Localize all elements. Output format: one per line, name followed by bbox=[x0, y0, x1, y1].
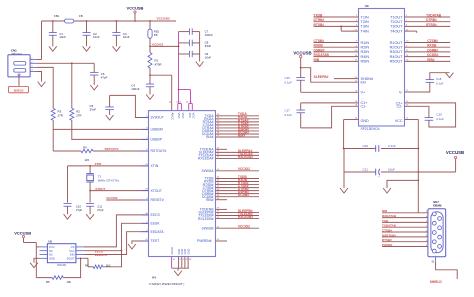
svg-text:RXLEDB#: RXLEDB# bbox=[238, 215, 253, 219]
svg-text:CTSB#: CTSB# bbox=[314, 39, 325, 43]
svg-text:VCC: VCC bbox=[192, 113, 196, 119]
svg-text:R5IN: R5IN bbox=[361, 60, 370, 64]
svg-text:0.1uF: 0.1uF bbox=[285, 81, 293, 85]
svg-text:SHIELD: SHIELD bbox=[14, 88, 24, 92]
svg-text:27R: 27R bbox=[58, 114, 63, 118]
svg-text:6MHz CRYSTAL: 6MHz CRYSTAL bbox=[98, 178, 120, 182]
svg-text:RXDATAB: RXDATAB bbox=[382, 214, 397, 218]
svg-text:SP213EHCA: SP213EHCA bbox=[361, 127, 381, 131]
svg-text:FT2232 ( RS232 PINOUT ): FT2232 ( RS232 PINOUT ) bbox=[150, 282, 185, 286]
svg-text:C20: C20 bbox=[363, 144, 369, 148]
svg-text:DSRB#: DSRB# bbox=[314, 48, 325, 52]
svg-text:SI/WUB: SI/WUB bbox=[201, 226, 214, 230]
svg-text:RESET#: RESET# bbox=[151, 198, 164, 202]
svg-text:DTRB#: DTRB# bbox=[314, 18, 325, 22]
svg-text:10nF: 10nF bbox=[93, 35, 100, 39]
svg-text:XTOUT: XTOUT bbox=[151, 189, 162, 193]
svg-text:T2OUT: T2OUT bbox=[390, 20, 403, 24]
svg-text:RIB: RIB bbox=[314, 58, 320, 62]
svg-text:GND: GND bbox=[186, 249, 190, 255]
svg-text:DTRB#: DTRB# bbox=[426, 18, 437, 22]
svg-text:10nF: 10nF bbox=[205, 55, 212, 59]
svg-text:0.1uF: 0.1uF bbox=[436, 81, 444, 85]
svg-text:RTSB#: RTSB# bbox=[426, 23, 437, 27]
svg-text:R1IN: R1IN bbox=[361, 41, 370, 45]
svg-text:RTSB#: RTSB# bbox=[382, 238, 392, 242]
svg-text:USBDP: USBDP bbox=[151, 138, 163, 142]
svg-text:1k5: 1k5 bbox=[85, 158, 90, 162]
svg-text:EEDATA: EEDATA bbox=[151, 230, 165, 234]
svg-text:T3OUT: T3OUT bbox=[390, 25, 403, 29]
svg-text:R2IN: R2IN bbox=[361, 46, 370, 50]
svg-text:FB: FB bbox=[154, 33, 158, 37]
svg-text:TEST: TEST bbox=[151, 239, 160, 243]
svg-text:RTSB#: RTSB# bbox=[314, 23, 325, 27]
svg-text:SI/WUA: SI/WUA bbox=[201, 169, 214, 173]
svg-text:T1OUT: T1OUT bbox=[390, 15, 403, 19]
svg-text:RSTOUT#: RSTOUT# bbox=[105, 147, 119, 151]
svg-text:VCCUSB: VCCUSB bbox=[293, 50, 311, 55]
svg-text:EESK: EESK bbox=[151, 222, 161, 226]
svg-text:U4: U4 bbox=[152, 276, 156, 280]
svg-text:VCCIO2: VCCIO2 bbox=[238, 167, 250, 171]
svg-text:GND: GND bbox=[361, 119, 370, 123]
svg-text:T3IN: T3IN bbox=[361, 25, 369, 29]
svg-text:T1IN: T1IN bbox=[361, 15, 369, 19]
svg-text:V+: V+ bbox=[361, 91, 366, 95]
svg-text:R2OUT: R2OUT bbox=[390, 46, 404, 50]
svg-text:3V3OUT: 3V3OUT bbox=[151, 116, 164, 120]
svg-text:RIB#: RIB# bbox=[427, 58, 435, 62]
svg-text:TXDB: TXDB bbox=[314, 13, 324, 17]
svg-text:AVCC: AVCC bbox=[171, 113, 175, 121]
svg-text:XTIN: XTIN bbox=[95, 162, 102, 166]
svg-text:100nF: 100nF bbox=[131, 87, 139, 91]
svg-text:RIA#: RIA# bbox=[206, 135, 214, 139]
svg-text:NC: NC bbox=[49, 253, 53, 257]
svg-text:RXDATAB: RXDATAB bbox=[314, 53, 330, 57]
svg-text:VCCUSB: VCCUSB bbox=[127, 6, 144, 11]
svg-text:VCCIO2: VCCIO2 bbox=[238, 225, 250, 229]
svg-text:470R: 470R bbox=[155, 63, 162, 67]
svg-text:RXLEDA#: RXLEDA# bbox=[198, 157, 214, 161]
svg-text:10nF: 10nF bbox=[59, 35, 66, 39]
svg-text:EECS: EECS bbox=[151, 213, 161, 217]
svg-text:TXDATAB: TXDATAB bbox=[382, 224, 397, 228]
svg-text:RXDB: RXDB bbox=[314, 44, 324, 48]
svg-text:VCCIO2: VCCIO2 bbox=[106, 196, 118, 200]
svg-text:GND: GND bbox=[49, 256, 55, 260]
svg-text:27R: 27R bbox=[76, 114, 81, 118]
svg-text:10uF: 10uF bbox=[388, 167, 395, 171]
svg-text:DCDB#: DCDB# bbox=[427, 53, 438, 57]
svg-text:0.1uF: 0.1uF bbox=[388, 144, 396, 148]
svg-text:SLEEPB#: SLEEPB# bbox=[314, 75, 329, 79]
svg-text:RIB#: RIB# bbox=[206, 198, 214, 202]
svg-text:PORB#: PORB# bbox=[382, 243, 393, 247]
svg-text:CLK: CLK bbox=[69, 249, 74, 253]
svg-text:R4OUT: R4OUT bbox=[390, 55, 404, 59]
svg-text:PWREN#: PWREN# bbox=[197, 239, 212, 243]
svg-text:R5: R5 bbox=[46, 280, 50, 284]
svg-text:27pF: 27pF bbox=[97, 208, 104, 212]
svg-text:RSTOUT#: RSTOUT# bbox=[151, 149, 167, 153]
svg-text:CTSB#: CTSB# bbox=[427, 39, 438, 43]
svg-text:C2-: C2- bbox=[397, 105, 404, 109]
svg-text:VCC: VCC bbox=[395, 119, 403, 123]
svg-text:EN: EN bbox=[361, 81, 366, 85]
svg-text:C19: C19 bbox=[437, 113, 443, 117]
svg-text:VCCUSB: VCCUSB bbox=[446, 150, 464, 155]
svg-text:R1OUT: R1OUT bbox=[390, 41, 404, 45]
svg-text:C17: C17 bbox=[285, 109, 291, 113]
svg-text:R6: R6 bbox=[85, 263, 89, 267]
svg-text:2k2: 2k2 bbox=[106, 263, 111, 267]
svg-text:SHIELD: SHIELD bbox=[430, 280, 443, 284]
svg-text:RXLEDB#: RXLEDB# bbox=[198, 217, 214, 221]
svg-text:100nF: 100nF bbox=[205, 33, 213, 37]
svg-text:R3IN: R3IN bbox=[361, 50, 370, 54]
svg-text:C16: C16 bbox=[285, 76, 291, 80]
svg-text:T4OUT: T4OUT bbox=[390, 29, 403, 33]
svg-text:VCCUSB: VCCUSB bbox=[157, 16, 171, 20]
svg-text:FB: FB bbox=[79, 14, 83, 18]
svg-text:DCDB#: DCDB# bbox=[238, 193, 249, 197]
svg-text:AGND: AGND bbox=[170, 247, 174, 255]
svg-text:RXLEDA#: RXLEDA# bbox=[238, 155, 253, 159]
svg-text:USBDM: USBDM bbox=[151, 128, 163, 132]
svg-text:TXB: TXB bbox=[382, 219, 389, 223]
svg-text:U5: U5 bbox=[48, 240, 52, 244]
svg-text:27pF: 27pF bbox=[76, 208, 83, 212]
svg-text:CN1: CN1 bbox=[11, 49, 17, 53]
svg-text:DIN: DIN bbox=[70, 253, 75, 257]
svg-text:VCCUSB: VCCUSB bbox=[14, 230, 31, 235]
svg-text:T4IN: T4IN bbox=[361, 29, 369, 33]
svg-text:93C06: 93C06 bbox=[57, 263, 66, 267]
svg-text:CTSB#: CTSB# bbox=[382, 228, 392, 232]
svg-text:FB1: FB1 bbox=[54, 14, 60, 18]
svg-text:33nF: 33nF bbox=[90, 107, 97, 111]
svg-text:EEDATA: EEDATA bbox=[95, 253, 108, 257]
svg-text:47pF: 47pF bbox=[101, 76, 108, 80]
svg-text:VCC: VCC bbox=[181, 113, 185, 119]
svg-text:33nF: 33nF bbox=[205, 44, 212, 48]
svg-text:3V3: 3V3 bbox=[188, 113, 192, 118]
svg-text:0.1uF: 0.1uF bbox=[285, 113, 293, 117]
svg-text:VCC: VCC bbox=[49, 245, 55, 249]
svg-text:RXDB: RXDB bbox=[427, 44, 437, 48]
svg-text:DSRTAB#: DSRTAB# bbox=[382, 233, 396, 237]
svg-text:R3OUT: R3OUT bbox=[390, 50, 404, 54]
svg-text:R4: R4 bbox=[83, 145, 87, 149]
svg-text:U3: U3 bbox=[365, 4, 369, 8]
svg-text:C1-: C1- bbox=[361, 105, 368, 109]
svg-text:RIA#: RIA# bbox=[238, 133, 246, 137]
svg-text:VCC: VCC bbox=[177, 113, 181, 119]
svg-text:R4IN: R4IN bbox=[361, 55, 370, 59]
svg-text:CS: CS bbox=[71, 245, 75, 249]
svg-text:DOUT: DOUT bbox=[67, 256, 75, 260]
svg-text:T2IN: T2IN bbox=[361, 20, 369, 24]
svg-text:R5OUT: R5OUT bbox=[390, 60, 404, 64]
svg-text:C21: C21 bbox=[363, 167, 369, 171]
svg-text:C18: C18 bbox=[436, 77, 442, 81]
svg-text:XTOUT: XTOUT bbox=[95, 187, 105, 191]
svg-text:DB9M: DB9M bbox=[433, 203, 442, 207]
svg-text:XTIN: XTIN bbox=[151, 164, 159, 168]
svg-text:TXDATAB: TXDATAB bbox=[426, 13, 442, 17]
svg-text:10nF: 10nF bbox=[123, 35, 130, 39]
svg-text:NC: NC bbox=[49, 249, 53, 253]
svg-text:RIB: RIB bbox=[382, 209, 388, 213]
svg-text:10k: 10k bbox=[66, 280, 71, 284]
svg-text:DSRB#: DSRB# bbox=[427, 48, 438, 52]
svg-text:0.1uF: 0.1uF bbox=[437, 117, 445, 121]
